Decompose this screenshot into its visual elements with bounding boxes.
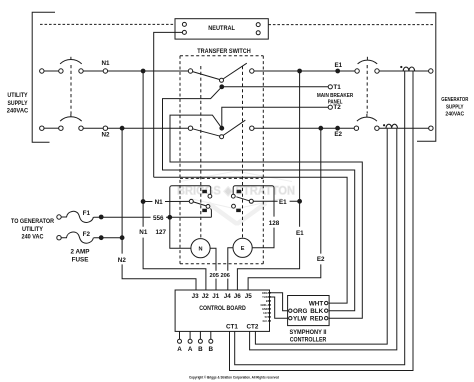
svg-text:MAIN BREAKER: MAIN BREAKER (317, 93, 353, 99)
wire 205 (coil N to J1) (210, 248, 216, 290)
node N2 fuse tap (120, 236, 124, 240)
svg-text:B: B (266, 299, 268, 303)
svg-text:YLW: YLW (262, 295, 268, 299)
svg-text:240VAC: 240VAC (7, 108, 29, 115)
control board box (175, 290, 269, 331)
NEUTRAL terminal circles (182, 22, 186, 26)
node N1 relay tap (141, 200, 145, 204)
node E1 relay tap (298, 199, 302, 203)
svg-text:J5: J5 (245, 293, 253, 300)
node F2 output (99, 236, 103, 240)
utility breaker pole 2 (N2) (40, 126, 44, 130)
svg-text:CT2: CT2 (246, 324, 258, 331)
wire net E1 drop to J6 (237, 71, 299, 290)
current transformer CT1 on E1 (403, 67, 414, 71)
wire N1 row (83, 70, 188, 72)
terminal N1 (103, 69, 107, 73)
utility breaker mechanical link (70, 65, 72, 114)
terminal RED (325, 317, 328, 320)
wire WHT bus (neutral to controller WHT) (154, 177, 347, 303)
pin header tiny labels (261, 291, 269, 323)
relay enclosure dashed bottom (180, 263, 263, 265)
svg-text:CONTROL BOARD: CONTROL BOARD (199, 305, 246, 312)
wire F2 to N2 (94, 237, 123, 239)
svg-text:240 VAC: 240 VAC (22, 235, 45, 241)
fuse F2 (57, 236, 61, 240)
coil N (191, 239, 210, 258)
node S1 common (220, 85, 224, 89)
utility supply bracket (32, 12, 55, 142)
svg-text:E1: E1 (296, 230, 304, 237)
node E1 splice dot (336, 69, 340, 73)
node N1 junction (141, 69, 145, 73)
wire YLW from pin header (270, 297, 289, 318)
wire CT2 secondary a (255, 129, 387, 345)
coil E (233, 238, 252, 257)
svg-text:A: A (177, 346, 182, 353)
terminal YLW (289, 317, 292, 320)
svg-text:J4: J4 (224, 293, 232, 300)
wire CT1 secondary a (235, 71, 405, 364)
svg-text:BLK: BLK (310, 308, 323, 315)
wire 206 (coil E to J4) (228, 248, 233, 290)
fuse F1 (57, 215, 61, 219)
svg-text:12V: 12V (263, 311, 268, 315)
svg-text:J6: J6 (234, 293, 242, 300)
control board pin header (270, 293, 289, 311)
mechanical link switch S1 to coil N (200, 66, 202, 238)
svg-text:SUPPLY: SUPPLY (8, 100, 29, 107)
wire net E2 drop to J5 (248, 128, 321, 290)
wire CT1 secondary b (230, 71, 414, 370)
svg-text:E1: E1 (334, 62, 342, 69)
wire RED bus (S2 common to controller RED) (170, 115, 362, 318)
wire E1 row (254, 70, 355, 72)
Symphony II controller box (288, 296, 330, 326)
svg-text:N1: N1 (101, 60, 110, 67)
wire T2 (S2 common to main breaker panel) (222, 107, 328, 128)
generator breaker pole 1 (E1) (355, 69, 359, 73)
wire E2 to generator terminal (379, 127, 429, 129)
wire BLK bus (S1 common to controller BLK) (163, 87, 355, 311)
wire 556 (F1 to relay NC contact) (94, 216, 212, 218)
node E2 junction (319, 126, 323, 130)
svg-text:E2: E2 (317, 256, 325, 263)
svg-text:SUPPLY: SUPPLY (446, 104, 464, 110)
mechanical link switch S2 to coil E (242, 66, 244, 238)
svg-text:T1: T1 (333, 84, 341, 91)
wire N1 into relay K1 (143, 200, 189, 202)
svg-text:240VAC: 240VAC (445, 112, 464, 118)
wire E1 into relay K2 (253, 200, 299, 202)
utility breaker pole 1 (N1) (40, 69, 44, 73)
svg-text:J3: J3 (192, 293, 200, 300)
svg-text:Copyright © Briggs & Stratton: Copyright © Briggs & Stratton Corporatio… (189, 376, 279, 380)
svg-text:T2: T2 (333, 104, 341, 111)
neutral dashed line (right segment) (268, 24, 433, 26)
wire E2 row (254, 127, 354, 129)
transfer switch pole S2 (bottom) (188, 126, 192, 130)
svg-text:GND+: GND+ (261, 303, 269, 307)
generator supply bracket (415, 13, 435, 141)
svg-text:E: E (241, 246, 245, 252)
NEUTRAL terminal box (175, 19, 268, 39)
neutral dashed line (left segment) (40, 23, 175, 25)
svg-text:ORG: ORG (262, 291, 268, 295)
wire 127 (junction to coil N) (170, 217, 191, 248)
svg-text:206: 206 (220, 273, 230, 279)
watermark Briggs & Stratton logo (177, 171, 295, 224)
generator breaker mechanical link (366, 65, 368, 114)
terminal WHT (325, 301, 328, 304)
svg-text:FUSE: FUSE (72, 256, 89, 263)
svg-text:5V: 5V (265, 315, 268, 319)
svg-text:TO GENERATOR: TO GENERATOR (11, 219, 55, 225)
svg-text:N: N (198, 247, 202, 253)
svg-text:CONTROLLER: CONTROLLER (290, 336, 327, 343)
svg-text:F1: F1 (83, 210, 91, 217)
transfer switch dashed enclosure (180, 55, 263, 57)
svg-text:UTILITY: UTILITY (22, 227, 43, 233)
svg-text:GENERATOR: GENERATOR (441, 97, 468, 103)
svg-text:N.C.: N.C. (263, 319, 268, 323)
svg-text:CT1: CT1 (226, 324, 238, 331)
wire net N1 drop to J2 (143, 71, 206, 290)
svg-text:128: 128 (269, 220, 280, 227)
svg-text:ORG: ORG (293, 308, 307, 315)
svg-text:B: B (209, 346, 214, 353)
svg-text:556: 556 (153, 215, 164, 222)
node S2 common (220, 126, 224, 130)
node F1 output (99, 215, 103, 219)
terminal generator E1 (429, 69, 433, 73)
terminal ORG (289, 309, 292, 312)
current transformer CT2 on E2 (386, 124, 397, 128)
relay K1 contact group (utility side) (170, 186, 211, 216)
svg-text:YLW: YLW (293, 316, 307, 323)
wire 128 (K2 contact to coil E) (252, 228, 274, 248)
svg-text:2 AMP: 2 AMP (70, 249, 89, 256)
node N2 junction (120, 126, 124, 130)
svg-text:RED: RED (310, 316, 324, 323)
transfer switch pole S1 (top) (188, 69, 192, 73)
wire T1 (S1 common to main breaker panel) (222, 86, 328, 88)
svg-text:127: 127 (155, 229, 166, 236)
svg-text:NEUTRAL: NEUTRAL (208, 25, 235, 32)
svg-text:N1: N1 (155, 199, 164, 206)
svg-text:J1: J1 (212, 293, 220, 300)
wire neutral to WHT bus (154, 32, 183, 177)
svg-text:B: B (198, 346, 203, 353)
svg-text:GND: GND (262, 307, 268, 311)
generator breaker pole 2 (E2) (354, 126, 358, 130)
svg-text:WHT: WHT (309, 300, 323, 307)
wire net N2 drop to J3 (122, 128, 196, 290)
terminal generator E2 (429, 126, 433, 130)
terminal T1 (328, 85, 332, 89)
svg-text:N2: N2 (118, 257, 127, 264)
relay K2 contact group (generator side) (233, 186, 274, 217)
terminal BLK (325, 309, 328, 312)
wire E1 to generator terminal (379, 70, 428, 72)
svg-text:N1: N1 (139, 229, 148, 236)
node 556/127 junction (168, 215, 172, 219)
control board ground leads A A B B (180, 331, 211, 339)
svg-text:J2: J2 (202, 293, 210, 300)
svg-text:A: A (188, 346, 193, 353)
pin header ticks (268, 292, 270, 322)
svg-text:205: 205 (209, 273, 219, 279)
svg-text:E2: E2 (334, 131, 342, 138)
relay enclosure dashed divider (top of actuator box) (180, 177, 263, 179)
svg-text:F2: F2 (83, 231, 91, 238)
node E1 junction (298, 69, 302, 73)
terminal N2 (103, 126, 107, 130)
node E2 splice dot (336, 126, 340, 130)
svg-text:N2: N2 (101, 131, 110, 138)
wire N2 row (83, 127, 188, 129)
wire CT2 secondary b (250, 129, 397, 350)
terminal T2 (328, 105, 332, 109)
svg-text:UTILITY: UTILITY (7, 92, 28, 99)
svg-text:TRANSFER SWITCH: TRANSFER SWITCH (197, 48, 251, 55)
svg-text:SYMPHONY II: SYMPHONY II (290, 329, 327, 336)
svg-text:E1: E1 (279, 199, 287, 206)
